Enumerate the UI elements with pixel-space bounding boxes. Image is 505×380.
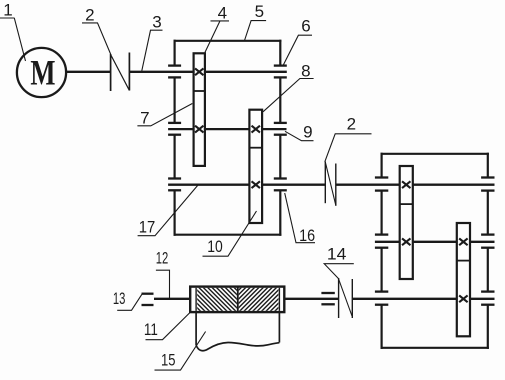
label 1 bbox=[0, 1, 26, 62]
gearbox2 housing bbox=[381, 153, 489, 349]
label 12 bbox=[156, 249, 170, 299]
svg-text:6: 6 bbox=[301, 17, 310, 36]
label 13 bbox=[113, 289, 142, 311]
gear pair on shafts B-C gearbox2 bbox=[457, 223, 470, 336]
label 2 bbox=[82, 6, 111, 55]
gear pair 8/10 on shafts 2-3 bbox=[249, 110, 262, 223]
svg-text:3: 3 bbox=[152, 13, 161, 32]
bearing gearbox2 right shaftA bbox=[481, 178, 494, 191]
svg-text:15: 15 bbox=[161, 351, 176, 370]
label 3 bbox=[142, 13, 163, 71]
container 15 bbox=[196, 312, 279, 351]
gearbox1 housing bbox=[174, 40, 282, 236]
label 2 bbox=[325, 114, 372, 161]
coupling 2 left bbox=[111, 53, 130, 92]
svg-text:12: 12 bbox=[156, 249, 169, 268]
bearing gearbox2 left shaftC bbox=[375, 292, 388, 305]
svg-text:13: 13 bbox=[113, 289, 126, 308]
bearing gearbox2 right shaftB bbox=[481, 235, 494, 248]
bearing gearbox1 left shaft1 bbox=[168, 66, 181, 78]
end support near coupling 14 bbox=[321, 293, 334, 304]
label 14 bbox=[324, 245, 354, 279]
svg-text:1: 1 bbox=[3, 1, 12, 20]
label 9 bbox=[285, 123, 314, 142]
label 5 bbox=[245, 2, 267, 41]
svg-text:11: 11 bbox=[144, 320, 158, 339]
svg-text:7: 7 bbox=[140, 109, 149, 128]
label 17 bbox=[138, 185, 198, 236]
bearing gearbox1 right shaft2 bbox=[274, 123, 287, 135]
wire shaft1 motor to coupling bbox=[66, 71, 111, 73]
svg-text:M: M bbox=[30, 53, 55, 93]
wire shaftB gearbox2 bbox=[375, 241, 495, 243]
gear pair 4/7 on shafts 1-2 bbox=[194, 53, 205, 166]
label 11 bbox=[144, 313, 190, 340]
svg-text:4: 4 bbox=[218, 4, 227, 23]
wire shaft2 gearbox1 bbox=[168, 128, 286, 130]
wire shaft3 coupling2 to gearbox2 bbox=[336, 184, 495, 186]
wire shaft1 coupling to gearbox1 bbox=[129, 71, 286, 73]
svg-text:2: 2 bbox=[85, 6, 94, 25]
label 16 bbox=[285, 193, 315, 245]
label 4 bbox=[205, 4, 229, 53]
svg-text:9: 9 bbox=[303, 123, 312, 142]
end support 13 bbox=[142, 294, 154, 305]
wire shaft3 gearbox1 to coupling2 bbox=[168, 184, 325, 186]
label 8 bbox=[263, 61, 314, 111]
wire drum shaft to coupling14 bbox=[284, 298, 338, 300]
bearing gearbox2 right shaftC bbox=[481, 292, 494, 305]
svg-text:2: 2 bbox=[347, 114, 356, 133]
drum 11 bbox=[168, 283, 312, 316]
svg-text:17: 17 bbox=[139, 217, 156, 236]
coupling 2 right bbox=[325, 162, 336, 206]
label 10 bbox=[203, 211, 257, 256]
bearing gearbox1 right shaft1 bbox=[274, 66, 287, 78]
svg-text:5: 5 bbox=[255, 2, 264, 21]
motor M bbox=[17, 48, 66, 97]
bearing gearbox1 left shaft2 bbox=[168, 123, 181, 135]
bearing gearbox2 left shaftB bbox=[375, 235, 388, 248]
bearing gearbox2 left shaftA bbox=[375, 178, 388, 191]
bearing gearbox1 right shaft3 bbox=[274, 179, 287, 191]
svg-text:10: 10 bbox=[207, 237, 223, 256]
gear pair on shafts A-B gearbox2 bbox=[400, 166, 413, 279]
label 7 bbox=[137, 104, 192, 128]
label 15 bbox=[155, 332, 206, 371]
bearing gearbox1 left shaft3 bbox=[168, 179, 181, 191]
svg-text:8: 8 bbox=[301, 61, 310, 80]
coupling 14 bbox=[339, 278, 353, 318]
wire drum shaft left end bbox=[154, 298, 190, 300]
label 6 bbox=[284, 17, 313, 65]
svg-text:14: 14 bbox=[327, 245, 347, 264]
wire shaftC coupling14 to gearbox2 bbox=[352, 298, 494, 300]
